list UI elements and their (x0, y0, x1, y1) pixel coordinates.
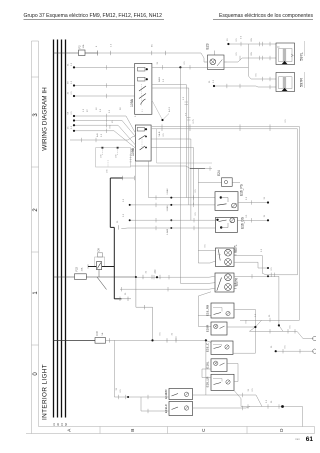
svg-text:0.5: 0.5 (123, 198, 125, 202)
wire W1 from bus to F2 and E23 (54, 51, 205, 63)
svg-text:WIRING DIAGRAM IH: WIRING DIAGRAM IH (42, 87, 49, 151)
svg-text:0.5: 0.5 (101, 133, 103, 137)
scattered wire designation micro labels (116, 38, 292, 403)
switch E18_RB (205, 303, 234, 318)
svg-text:31: 31 (117, 220, 119, 223)
E17R left feeds (120, 275, 215, 291)
svg-text:GN: GN (251, 38, 253, 42)
svg-text:0.5: 0.5 (123, 213, 125, 217)
feed wires into 109A (74, 65, 135, 98)
switch E18_LR (205, 374, 234, 390)
svg-text:186: 186 (101, 154, 103, 158)
svg-text:E5: E5 (152, 44, 154, 47)
wire 109A right top (152, 65, 249, 69)
svg-text:31: 31 (52, 423, 56, 426)
svg-text:597R: 597R (300, 78, 304, 87)
E19 feed wires (114, 395, 169, 413)
svg-text:10A: 10A (81, 267, 84, 271)
svg-text:31: 31 (271, 345, 273, 348)
svg-text:186: 186 (107, 169, 109, 173)
E17R right wire down to junction (234, 274, 283, 331)
svg-text:D: D (279, 428, 284, 432)
svg-text:E16_PS: E16_PS (240, 184, 244, 196)
node dot (179, 66, 181, 68)
svg-text:30: 30 (227, 38, 229, 41)
power bus bar 4 (65, 40, 67, 418)
svg-text:E16_DS: E16_DS (241, 217, 245, 229)
svg-text:10A: 10A (82, 44, 85, 48)
svg-text:Grupo 37 Esquema eléctrico FM9: Grupo 37 Esquema eléctrico FM9, FM12, FH… (24, 13, 163, 19)
node dot with callout (152, 100, 163, 120)
lamp switch E18R (205, 322, 227, 335)
wire to 597L pin1 (228, 42, 276, 46)
E18 left loops (202, 369, 211, 378)
svg-text:E18R: E18R (205, 324, 209, 332)
svg-text:GN: GN (251, 52, 253, 56)
switch unit 109A (130, 63, 152, 114)
svg-text:30: 30 (56, 423, 60, 426)
switch E16_DS (216, 217, 245, 232)
dome lamp 597L (276, 41, 305, 65)
long right vertical wires (298, 127, 300, 320)
svg-text:0.5: 0.5 (163, 133, 165, 137)
svg-text:31: 31 (248, 388, 250, 391)
svg-text:5A-B: 5A-B (158, 131, 161, 136)
svg-text:E24: E24 (217, 170, 221, 176)
wire pair 109B to right verticals (152, 124, 300, 131)
svg-text:0.5: 0.5 (252, 388, 254, 392)
svg-text:mm: mm (295, 437, 300, 441)
wire over connector box (70, 137, 135, 143)
svg-text:0.5: 0.5 (160, 332, 162, 336)
main wire with F22 and switch contact (54, 275, 161, 290)
svg-text:1-BA6: 1-BA6 (166, 188, 169, 195)
svg-text:BA-B: BA-B (158, 76, 161, 82)
reading lamp E17L (216, 244, 238, 266)
vertical from dot to E17R (180, 67, 215, 283)
wire to 597R pin2 (214, 84, 276, 89)
svg-text:INTERIOR LIGHT: INTERIOR LIGHT (42, 364, 49, 420)
svg-text:31: 31 (125, 292, 127, 295)
svg-text:0.5: 0.5 (71, 91, 73, 95)
svg-text:109B: 109B (131, 147, 135, 156)
svg-text:E18_RB: E18_RB (205, 305, 209, 316)
diode unit (88, 248, 105, 270)
svg-text:3: 3 (33, 113, 39, 117)
switch unit 109B (131, 125, 151, 161)
svg-text:0.5: 0.5 (71, 125, 73, 129)
svg-text:1.5: 1.5 (111, 43, 113, 47)
fuse F47 (95, 330, 106, 343)
svg-text:1: 1 (33, 291, 39, 295)
wire y351 to C mark (276, 349, 314, 353)
wires 109A right to E16_PS (130, 85, 215, 208)
E19 right wires to ground (193, 393, 303, 427)
svg-text:0.5: 0.5 (241, 35, 243, 39)
svg-text:0.5: 0.5 (184, 61, 186, 65)
svg-text:0.5: 0.5 (120, 389, 122, 393)
svg-text:1-BA5: 1-BA5 (166, 205, 169, 212)
svg-text:0.5: 0.5 (290, 325, 292, 329)
svg-text:58: 58 (68, 81, 70, 84)
wire from junction down to E18/E19 (136, 277, 153, 340)
wire from pair down right of 109B (157, 129, 212, 163)
wire from connector box to E24/E17L feeds (131, 166, 222, 263)
wire down to 597R pin1 (248, 44, 276, 81)
svg-text:31: 31 (68, 63, 70, 66)
svg-text:186: 186 (116, 154, 118, 158)
connector box 186 (96, 147, 132, 173)
fuse F2 (78, 44, 86, 55)
svg-text:0.5: 0.5 (285, 119, 287, 123)
power bus bar 3 (61, 40, 63, 418)
lamp unit E23 (204, 43, 227, 69)
svg-text:5A: 5A (101, 332, 104, 335)
svg-text:109A: 109A (130, 98, 134, 107)
svg-text:Esquemas eléctricos de los com: Esquemas eléctricos de los componentes (219, 13, 313, 19)
feed wires into 109B (74, 114, 135, 148)
svg-text:0.5: 0.5 (271, 267, 273, 271)
svg-text:F47: F47 (95, 330, 99, 335)
svg-text:58: 58 (120, 107, 122, 110)
E17L right wires (234, 256, 298, 278)
E18 right chain (227, 309, 314, 406)
E16 right wires with end dots (237, 200, 268, 222)
vertical wire from 109B down (135, 161, 137, 277)
switch E16_PS (215, 184, 244, 210)
svg-text:0.5: 0.5 (71, 80, 73, 84)
svg-text:31: 31 (269, 314, 271, 317)
wire E23 to 597L pin2 (227, 56, 276, 62)
svg-text:E19LC: E19LC (164, 403, 168, 413)
svg-text:D9: D9 (97, 248, 101, 252)
svg-text:F2: F2 (78, 45, 82, 49)
svg-text:0.5: 0.5 (261, 248, 263, 252)
svg-text:A: A (67, 428, 72, 432)
svg-text:0.5: 0.5 (195, 212, 197, 216)
svg-text:1.5: 1.5 (83, 108, 85, 112)
node dot feed 597R (213, 85, 215, 87)
svg-text:E23: E23 (206, 43, 210, 49)
svg-text:0.5: 0.5 (246, 196, 248, 200)
svg-text:0.5: 0.5 (285, 345, 287, 349)
svg-text:0.5: 0.5 (205, 244, 207, 248)
svg-text:4: 4 (96, 45, 98, 47)
frame bottom strip (26, 427, 315, 434)
dome lamp 597R (276, 72, 305, 92)
svg-text:0.5: 0.5 (163, 78, 165, 82)
svg-text:0.5: 0.5 (109, 109, 111, 113)
power bus bar 2 (57, 40, 59, 418)
svg-text:A 3.6: A 3.6 (168, 106, 171, 112)
svg-text:15: 15 (60, 423, 64, 426)
svg-text:15: 15 (68, 126, 70, 129)
lamp E24 (217, 170, 240, 186)
svg-text:2: 2 (33, 208, 39, 212)
svg-text:E17R: E17R (235, 277, 239, 286)
svg-text:0.5: 0.5 (71, 111, 73, 115)
switch E19RC (164, 388, 193, 399)
svg-text:0: 0 (33, 372, 39, 376)
switch E19LC (164, 402, 193, 416)
svg-text:0.5: 0.5 (266, 399, 268, 403)
svg-text:E19RC: E19RC (164, 388, 168, 399)
svg-text:E17L: E17L (234, 244, 238, 252)
svg-text:B: B (130, 429, 135, 432)
frame left strip (32, 41, 39, 434)
svg-text:31: 31 (172, 332, 174, 335)
node dot feed 597L (227, 43, 229, 45)
switch E18_C (205, 341, 233, 354)
svg-text:0.5: 0.5 (256, 73, 258, 77)
wires 109B right to E16_DS (121, 139, 215, 230)
svg-text:0.75: 0.75 (193, 118, 195, 123)
fuse F22 (75, 266, 87, 279)
E17R bottom to E18 chain (198, 292, 211, 327)
thick wire through diode to 109B (88, 178, 123, 299)
wire from bus through F47 to E18 (54, 338, 212, 342)
header left underline (24, 18, 165, 20)
header right underline (213, 18, 313, 20)
reading lamp E17R (215, 273, 239, 292)
connector C marks (313, 336, 316, 340)
vertical down to E19 feed (113, 340, 115, 397)
svg-text:1.5: 1.5 (183, 96, 185, 100)
bus bar net labels (52, 423, 68, 426)
extra connector ticks (176, 124, 295, 408)
svg-text:RT: RT (87, 108, 89, 112)
svg-text:31: 31 (116, 387, 118, 390)
svg-text:0.5: 0.5 (100, 108, 102, 112)
svg-text:58: 58 (68, 111, 70, 114)
svg-text:31: 31 (264, 196, 266, 199)
svg-text:A-B: A-B (96, 133, 99, 137)
svg-text:0.5: 0.5 (71, 62, 73, 66)
svg-text:15: 15 (68, 91, 70, 94)
svg-text:0.5: 0.5 (195, 189, 197, 193)
svg-text:C: C (201, 428, 206, 432)
svg-text:15: 15 (112, 120, 114, 123)
svg-text:58: 58 (64, 423, 68, 426)
svg-text:31: 31 (271, 400, 273, 403)
svg-text:F22: F22 (75, 266, 79, 271)
svg-text:0.5: 0.5 (246, 214, 248, 218)
svg-text:31: 31 (264, 214, 266, 217)
svg-text:31: 31 (157, 61, 159, 64)
svg-text:0.5: 0.5 (236, 52, 238, 56)
svg-text:1-BA8: 1-BA8 (166, 228, 169, 235)
svg-text:61: 61 (306, 436, 314, 443)
power bus bar 1 (53, 40, 55, 418)
svg-text:0.5: 0.5 (236, 38, 238, 42)
svg-text:597L: 597L (300, 52, 304, 60)
svg-text:0.5: 0.5 (213, 79, 215, 83)
svg-text:16: 16 (96, 107, 98, 110)
svg-text:31: 31 (209, 80, 211, 83)
svg-text:31: 31 (146, 270, 148, 273)
lamp switch E18L (205, 359, 227, 372)
